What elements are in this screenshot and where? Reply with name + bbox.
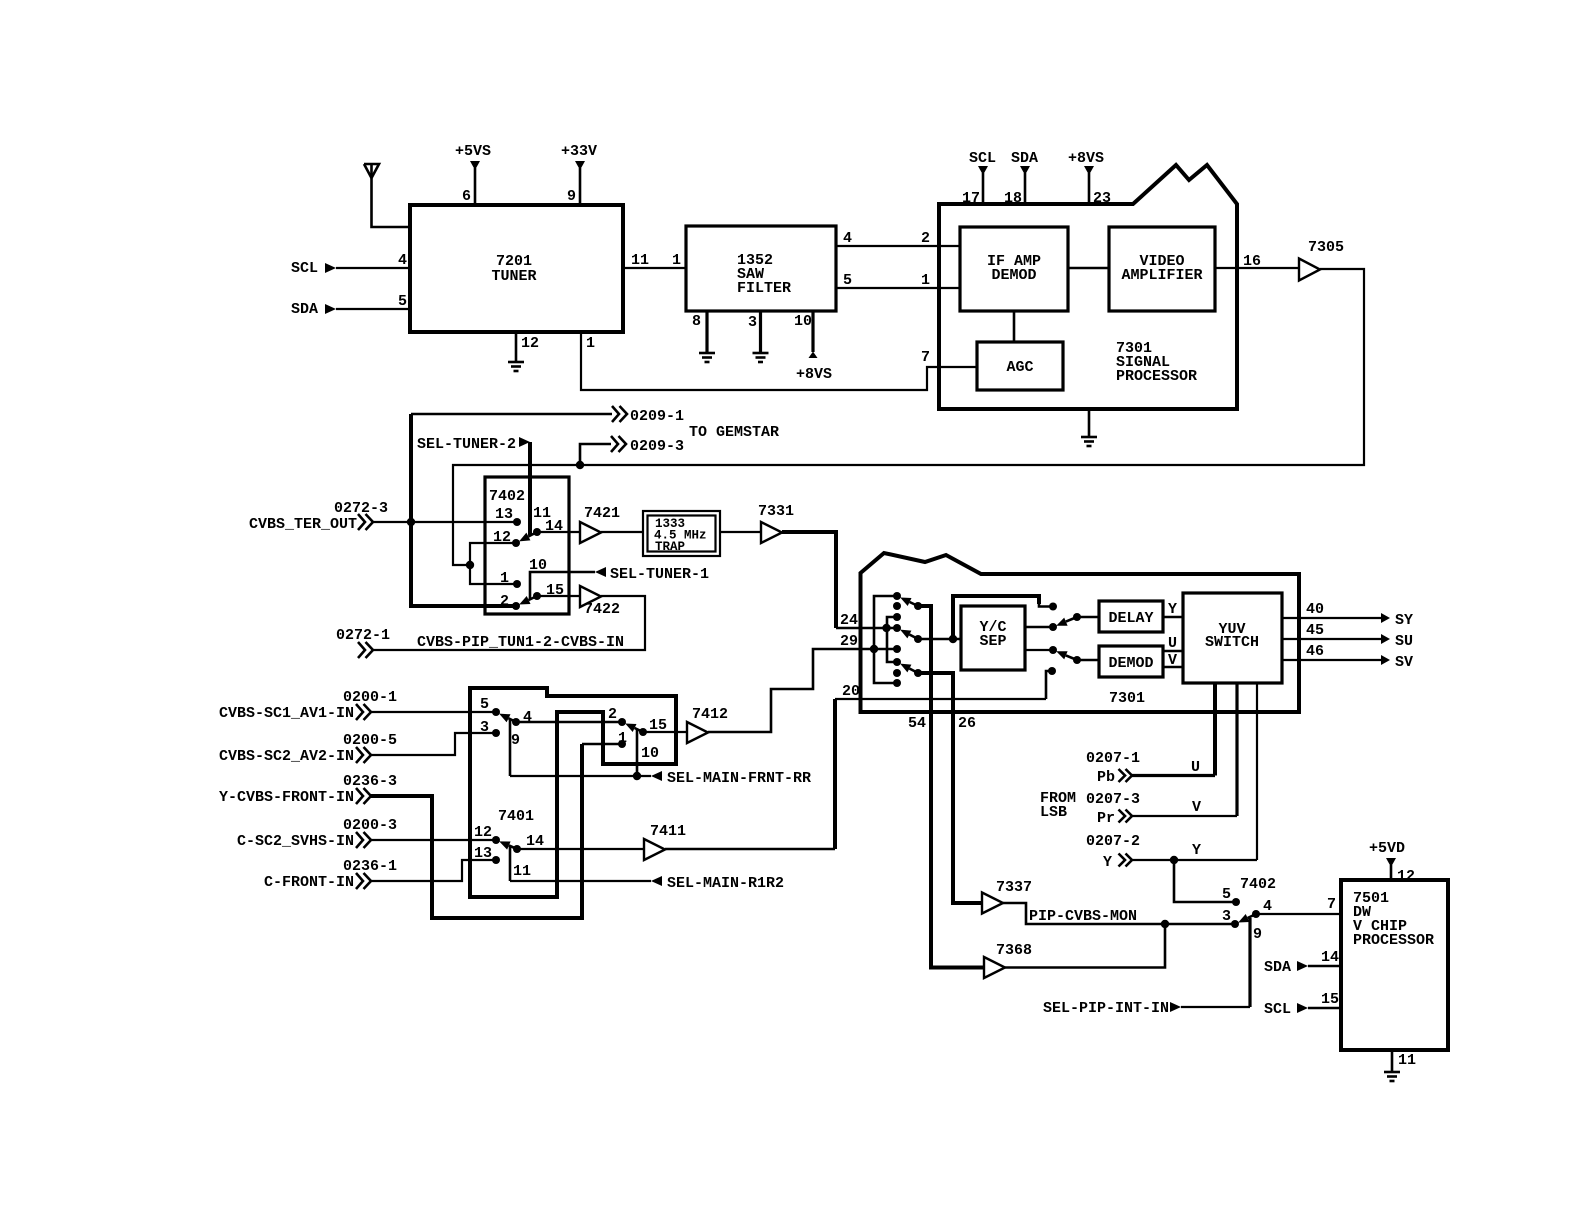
svg-text:TO GEMSTAR: TO GEMSTAR — [689, 424, 779, 441]
svg-text:CVBS-SC1_AV1-IN: CVBS-SC1_AV1-IN — [219, 705, 354, 722]
svg-text:0272-3: 0272-3 — [334, 500, 388, 517]
V chip processor U7501 — [1341, 880, 1448, 1050]
svg-text:0209-3: 0209-3 — [630, 438, 684, 455]
antenna — [364, 164, 410, 227]
buffer 7368 — [984, 942, 1032, 978]
svg-text:PROCESSOR: PROCESSOR — [1353, 932, 1434, 949]
+5VS supply — [455, 143, 491, 205]
svg-text:TRAP: TRAP — [655, 540, 685, 554]
svg-text:20: 20 — [842, 683, 860, 700]
svg-text:0200-1: 0200-1 — [343, 689, 397, 706]
svg-text:PIP-CVBS-MON: PIP-CVBS-MON — [1029, 908, 1137, 925]
wire demod to yuv switch V — [1163, 652, 1183, 669]
svg-text:3: 3 — [1222, 908, 1231, 925]
svg-text:SEL-MAIN-R1R2: SEL-MAIN-R1R2 — [667, 875, 784, 892]
+5VD supply — [1369, 840, 1415, 885]
svg-text:+8VS: +8VS — [1068, 150, 1104, 167]
svg-text:DEMOD: DEMOD — [1108, 655, 1153, 672]
svg-text:CVBS-SC2_AV2-IN: CVBS-SC2_AV2-IN — [219, 748, 354, 765]
svg-text:PROCESSOR: PROCESSOR — [1116, 368, 1197, 385]
SCL input — [291, 252, 410, 277]
buffer 7331 — [758, 503, 794, 543]
bypass wire around Y/C sep — [953, 596, 1039, 639]
buffer 7411 — [644, 823, 686, 860]
wire 7421 to trap — [601, 531, 643, 533]
svg-text:46: 46 — [1306, 643, 1324, 660]
SEL-MAIN-FRNT-RR control — [510, 770, 811, 787]
svg-text:0207-3: 0207-3 — [1086, 791, 1140, 808]
Y/C sep block — [961, 606, 1025, 670]
svg-text:7368: 7368 — [996, 942, 1032, 959]
svg-text:C-SC2_SVHS-IN: C-SC2_SVHS-IN — [237, 833, 354, 850]
buffer 7422 — [580, 586, 620, 618]
7401 pin 1 — [618, 730, 627, 748]
switch sw3 — [900, 664, 922, 677]
sw1 output to pin 54 — [918, 606, 931, 712]
svg-text:1: 1 — [921, 272, 930, 289]
svg-text:10: 10 — [794, 313, 812, 330]
YUV switch V pin wire to Pr — [1132, 683, 1237, 816]
7501 pin 11 ground — [1384, 1050, 1416, 1081]
SDA input — [291, 293, 410, 318]
svg-text:U: U — [1191, 759, 1200, 776]
svg-text:SDA: SDA — [1264, 959, 1291, 976]
7401 pin 14 and switch arm — [499, 833, 644, 853]
svg-text:SCL: SCL — [291, 260, 318, 277]
7402 pin 3 — [1222, 908, 1239, 928]
delay block — [1099, 601, 1163, 632]
saw pin 10 +8VS supply — [794, 310, 832, 383]
svg-text:10: 10 — [641, 745, 659, 762]
svg-text:24: 24 — [840, 612, 858, 629]
tuner pin 11 wire to saw filter — [623, 252, 686, 269]
saw filter 1352 — [686, 226, 836, 311]
wire to 7402 pin 1 — [470, 565, 517, 584]
YUV switch block — [1183, 593, 1282, 683]
svg-text:TUNER: TUNER — [491, 268, 536, 285]
saw out pin4 to pin2 wire — [836, 230, 960, 247]
pin 26 wire to buffer 7337 — [953, 712, 982, 903]
svg-text:29: 29 — [840, 633, 858, 650]
svg-text:Pr: Pr — [1097, 810, 1115, 827]
svg-text:SEL-MAIN-FRNT-RR: SEL-MAIN-FRNT-RR — [667, 770, 811, 787]
Y/C sep Y output — [1025, 626, 1052, 629]
svg-text:0272-1: 0272-1 — [336, 627, 390, 644]
outer bus pin 29 — [874, 596, 897, 683]
svg-text:SEL-PIP-INT-IN: SEL-PIP-INT-IN — [1043, 1000, 1169, 1017]
SEL-MAIN-R1R2 control — [510, 875, 784, 892]
7301 pin 16 wire — [1215, 253, 1301, 270]
junction inner bus — [882, 624, 890, 632]
demod switch arm — [1056, 651, 1099, 664]
contact dots column — [893, 592, 901, 600]
switch sw1 — [900, 598, 922, 611]
svg-text:0207-2: 0207-2 — [1086, 833, 1140, 850]
svg-text:Y: Y — [1192, 842, 1201, 859]
CVBS_TER_OUT input connector 0272-3 — [249, 500, 517, 533]
svg-text:6: 6 — [462, 188, 471, 205]
svg-text:11: 11 — [1398, 1052, 1416, 1069]
buffer 7305 — [1299, 239, 1344, 281]
7402 pin 5 — [1222, 886, 1240, 906]
7402 pin 13 — [495, 506, 521, 526]
svg-text:17: 17 — [962, 190, 980, 207]
7401 pin 15 and switch arm — [625, 717, 687, 736]
svg-text:5: 5 — [1222, 886, 1231, 903]
7301 pin 23 +8VS — [1068, 150, 1111, 207]
svg-text:SEL-TUNER-1: SEL-TUNER-1 — [610, 566, 709, 583]
connector 0207-1 Pb — [1086, 750, 1140, 786]
svg-text:18: 18 — [1004, 190, 1022, 207]
switch sw2 — [900, 630, 922, 643]
svg-text:FILTER: FILTER — [737, 280, 791, 297]
wire to 7402 pin 12 — [470, 543, 516, 565]
Y/C sep C output — [1025, 649, 1052, 651]
svg-text:+33V: +33V — [561, 143, 597, 160]
svg-text:14: 14 — [1321, 949, 1339, 966]
svg-text:DELAY: DELAY — [1108, 610, 1153, 627]
svg-text:2: 2 — [500, 593, 509, 610]
pin 45 output SU — [1282, 622, 1413, 650]
svg-text:11: 11 — [513, 863, 531, 880]
svg-text:7401: 7401 — [498, 808, 534, 825]
wire 7412 to pin 29 — [708, 633, 897, 732]
svg-text:9: 9 — [1253, 926, 1262, 943]
svg-text:LSB: LSB — [1040, 804, 1067, 821]
7401 pin 3 — [480, 719, 500, 737]
demod switch contacts — [1049, 646, 1057, 654]
svg-text:4: 4 — [1263, 898, 1272, 915]
svg-text:1: 1 — [500, 570, 509, 587]
7301 pin 18 SDA — [1004, 150, 1038, 207]
svg-text:26: 26 — [958, 715, 976, 732]
+33V supply — [561, 143, 597, 205]
7402 pin 12 — [493, 529, 520, 547]
wire 7331 to pin 24 — [782, 532, 897, 629]
svg-text:7422: 7422 — [584, 601, 620, 618]
svg-text:11: 11 — [631, 252, 649, 269]
svg-text:4: 4 — [398, 252, 407, 269]
junction on CVBS_TER_OUT — [407, 518, 415, 526]
svg-text:7301: 7301 — [1109, 690, 1145, 707]
svg-text:7411: 7411 — [650, 823, 686, 840]
svg-text:SCL: SCL — [1264, 1001, 1291, 1018]
junction — [466, 561, 474, 569]
svg-text:SEL-TUNER-2: SEL-TUNER-2 — [417, 436, 516, 453]
saw out pin5 to pin1 wire — [836, 272, 960, 289]
svg-text:9: 9 — [511, 732, 520, 749]
svg-text:0236-3: 0236-3 — [343, 773, 397, 790]
svg-text:Y-CVBS-FRONT-IN: Y-CVBS-FRONT-IN — [219, 789, 354, 806]
svg-text:+5VD: +5VD — [1369, 840, 1405, 857]
svg-text:DEMOD: DEMOD — [991, 267, 1036, 284]
sw2 output to Y/C sep — [918, 638, 961, 641]
svg-text:C-FRONT-IN: C-FRONT-IN — [264, 874, 354, 891]
buffer 7421 — [580, 505, 620, 543]
svg-text:5: 5 — [480, 696, 489, 713]
tuner pin 1 wire to AGC — [581, 332, 977, 390]
pin 54 wire to buffer 7368 — [908, 712, 984, 968]
IF amp demod block — [960, 227, 1068, 311]
wire 7411 to pin 20 — [665, 671, 1052, 849]
demod block — [1099, 646, 1163, 677]
svg-text:SY: SY — [1395, 612, 1413, 629]
wire 7305 output return — [453, 269, 1364, 565]
svg-text:AGC: AGC — [1006, 359, 1033, 376]
sw3 output to pin 26 — [918, 673, 953, 712]
delay switch arm — [1056, 613, 1099, 626]
svg-text:V: V — [1168, 652, 1177, 669]
CVBS-SC2_AV2-IN input connector 0200-5 — [219, 732, 496, 765]
video processor U7301 outline — [861, 553, 1300, 712]
wire 7422 to connector 0272-1 — [336, 596, 645, 658]
svg-text:+5VS: +5VS — [455, 143, 491, 160]
7301 ground — [1081, 409, 1097, 446]
svg-text:4: 4 — [523, 709, 532, 726]
7401 pin 12 — [474, 824, 500, 844]
svg-text:14: 14 — [526, 833, 544, 850]
svg-text:SU: SU — [1395, 633, 1413, 650]
svg-text:7337: 7337 — [996, 879, 1032, 896]
svg-text:8: 8 — [692, 313, 701, 330]
7401 pin 13 — [474, 845, 500, 864]
wire junction to 7402 pin 2 — [411, 522, 516, 606]
svg-text:2: 2 — [608, 706, 617, 723]
svg-text:SCL: SCL — [969, 150, 996, 167]
Y-CVBS-FRONT-IN input connector 0236-3 — [219, 744, 622, 918]
junction outer bus — [870, 645, 878, 653]
7402 pin 2 — [500, 593, 520, 610]
wire 7337 PIP-CVBS-MON — [1003, 903, 1235, 928]
svg-text:0200-5: 0200-5 — [343, 732, 397, 749]
7402 pin 4 and switch arm — [1238, 896, 1341, 923]
tuner U7201 — [410, 205, 623, 332]
svg-text:5: 5 — [843, 272, 852, 289]
svg-text:7: 7 — [1327, 896, 1336, 913]
wire delay to yuv switch Y — [1163, 601, 1183, 618]
saw pin 8 ground — [692, 310, 715, 362]
svg-text:40: 40 — [1306, 601, 1324, 618]
svg-text:CVBS-PIP_TUN1-2-CVBS-IN: CVBS-PIP_TUN1-2-CVBS-IN — [417, 634, 624, 651]
svg-text:Pb: Pb — [1097, 769, 1115, 786]
wire demod to yuv switch U — [1163, 635, 1183, 652]
svg-text:12: 12 — [474, 824, 492, 841]
switch 7402 — [485, 477, 569, 614]
buffer 7337 — [982, 879, 1032, 914]
FROM LSB label — [1040, 790, 1076, 821]
7402 pin 9 control — [1250, 918, 1262, 1007]
svg-text:0236-1: 0236-1 — [343, 858, 397, 875]
svg-text:7402: 7402 — [1240, 876, 1276, 893]
svg-text:SDA: SDA — [1011, 150, 1038, 167]
svg-text:U: U — [1168, 635, 1177, 652]
7402 pin 15 and switch arm — [519, 582, 580, 605]
svg-text:7305: 7305 — [1308, 239, 1344, 256]
saw pin 3 ground — [748, 310, 769, 362]
connector 0207-3 Pr — [1086, 791, 1140, 827]
svg-text:7402: 7402 — [489, 488, 525, 505]
0209-1 output wire — [411, 406, 684, 522]
7402 pin 14 and switch arm — [519, 518, 580, 541]
svg-text:5: 5 — [398, 293, 407, 310]
svg-text:7331: 7331 — [758, 503, 794, 520]
svg-text:0200-3: 0200-3 — [343, 817, 397, 834]
svg-text:CVBS_TER_OUT: CVBS_TER_OUT — [249, 516, 357, 533]
7402 pin 1 — [500, 570, 521, 588]
svg-text:SV: SV — [1395, 654, 1413, 671]
svg-text:1: 1 — [672, 252, 681, 269]
svg-text:13: 13 — [495, 506, 513, 523]
svg-text:V: V — [1192, 799, 1201, 816]
C-SC2_SVHS-IN input connector 0200-3 — [237, 817, 496, 850]
7401 pin 11 control — [510, 847, 531, 881]
svg-text:3: 3 — [748, 314, 757, 331]
SDA input to 7501 — [1264, 949, 1341, 976]
buffer 7412 — [687, 706, 728, 743]
connector 0207-2 Y — [1086, 833, 1140, 871]
wire Y to 7402 pin 5 — [1174, 860, 1236, 902]
svg-text:SWITCH: SWITCH — [1205, 634, 1259, 651]
svg-text:15: 15 — [1321, 991, 1339, 1008]
svg-text:0207-1: 0207-1 — [1086, 750, 1140, 767]
inner bus pin 24 — [887, 617, 897, 662]
7401 pin 5 — [480, 696, 500, 716]
pin 46 output SV — [1282, 643, 1413, 671]
tuner pin 12 ground — [508, 332, 539, 371]
svg-text:4: 4 — [843, 230, 852, 247]
7402 pin 10 SEL-TUNER-1 control — [529, 557, 709, 600]
wire 7368 output — [1005, 924, 1165, 968]
7401 pin 2 — [608, 706, 626, 726]
svg-text:12: 12 — [493, 529, 511, 546]
svg-text:7: 7 — [921, 349, 930, 366]
wire if amp to agc — [1013, 311, 1016, 342]
video amplifier block — [1109, 227, 1215, 311]
SCL input to 7501 — [1264, 991, 1341, 1018]
svg-text:1: 1 — [586, 335, 595, 352]
YUV switch Y pin wire — [1132, 683, 1257, 864]
7401 pin 10 control — [637, 730, 659, 776]
0209-3 output tap — [576, 436, 684, 469]
7301 pin 17 SCL — [962, 150, 996, 207]
svg-text:45: 45 — [1306, 622, 1324, 639]
7401 pin 9 control — [510, 720, 520, 776]
CVBS-SC1_AV1-IN input connector 0200-1 — [219, 689, 496, 722]
svg-text:12: 12 — [521, 335, 539, 352]
svg-text:16: 16 — [1243, 253, 1261, 270]
svg-text:Y: Y — [1103, 854, 1112, 871]
svg-text:7421: 7421 — [584, 505, 620, 522]
pin 40 output SY — [1282, 601, 1413, 629]
AGC block — [977, 342, 1063, 390]
svg-text:23: 23 — [1093, 190, 1111, 207]
SEL-PIP-INT-IN control — [1043, 1000, 1250, 1017]
trap 1333 4.5 MHz — [643, 511, 720, 556]
YUV switch U pin wire to Pb — [1132, 683, 1215, 776]
7401 pin 4 and switch arm — [499, 709, 622, 726]
svg-text:54: 54 — [908, 715, 926, 732]
svg-text:9: 9 — [567, 188, 576, 205]
svg-text:2: 2 — [921, 230, 930, 247]
svg-text:SEP: SEP — [979, 633, 1006, 650]
wire trap to 7331 — [720, 531, 761, 533]
svg-text:Y: Y — [1168, 601, 1177, 618]
svg-text:7412: 7412 — [692, 706, 728, 723]
svg-text:AMPLIFIER: AMPLIFIER — [1121, 267, 1202, 284]
svg-text:12: 12 — [1397, 868, 1415, 885]
signal processor U7301 — [939, 165, 1237, 409]
svg-text:+8VS: +8VS — [796, 366, 832, 383]
wire if amp to video amp — [1068, 267, 1109, 270]
svg-text:SDA: SDA — [291, 301, 318, 318]
switch 7401 outline — [470, 688, 676, 897]
delay switch contacts — [1049, 603, 1057, 611]
SEL-TUNER-2 control — [417, 436, 551, 535]
C-FRONT-IN input connector 0236-1 — [264, 858, 496, 891]
svg-text:0209-1: 0209-1 — [630, 408, 684, 425]
